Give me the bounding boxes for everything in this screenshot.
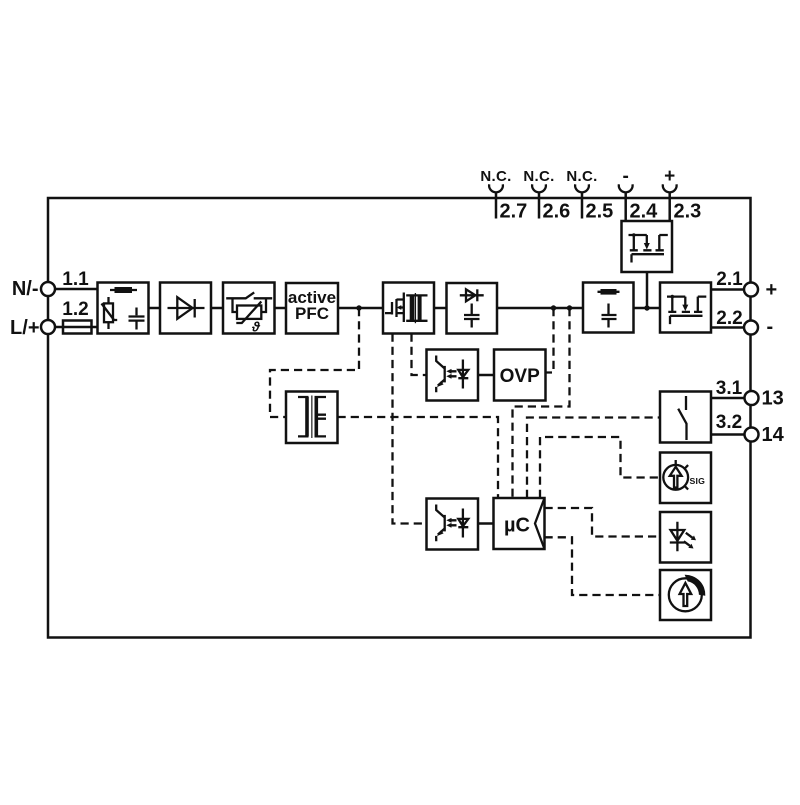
block: secondary rectifier diode + capacitor: [447, 283, 498, 334]
terminal 2.5 N.C.: [566, 168, 597, 219]
svg-text:+: +: [664, 166, 675, 187]
block: signal indicator SIG: [660, 453, 711, 504]
terminal 2.2 circle: [744, 321, 758, 335]
svg-text:SIG: SIG: [690, 476, 706, 486]
wire: bus PFC-DCDC: [338, 307, 383, 310]
wire: bus outfilter-outswitch: [634, 307, 661, 310]
terminal 13 circle: [745, 391, 759, 405]
label + (output plus): [766, 279, 778, 301]
wire: opto2 to uC: [478, 522, 494, 525]
wire: dashed net A (bus tap to aux transformer primary): [270, 308, 359, 417]
label 13: [762, 388, 784, 410]
block: microcontroller uC U5: [494, 498, 545, 549]
block: inrush limiter NTC with bypass switch: [223, 283, 275, 335]
wire: bus DCDC-rectout: [434, 307, 447, 310]
svg-text:2.5: 2.5: [586, 201, 614, 223]
svg-text:3.1: 3.1: [716, 378, 743, 399]
svg-text:14: 14: [762, 424, 785, 446]
label 3.1: [716, 378, 743, 399]
label L/+: [10, 317, 39, 339]
block: OVP overvoltage protection: [494, 350, 546, 401]
svg-text:2.3: 2.3: [674, 201, 702, 223]
wire: dashed net G (uC pin3 to relay): [527, 418, 660, 499]
terminal N/- circle: [41, 282, 55, 296]
label 3.2: [716, 412, 742, 433]
wire: bus rectifier-NTC: [211, 307, 223, 310]
wire: output 2.1: [711, 288, 745, 291]
block: relay signal contact K1: [660, 392, 711, 443]
svg-text:ϑ: ϑ: [251, 320, 261, 335]
block: output LC filter: [583, 283, 634, 333]
svg-text:-: -: [767, 316, 774, 338]
block: input filter (varistor+choke+cap): [98, 283, 149, 334]
terminal 2.6 N.C.: [523, 168, 554, 219]
node: junction U7/bus: [644, 305, 649, 310]
svg-text:OVP: OVP: [500, 366, 540, 387]
svg-text:2.2: 2.2: [716, 308, 742, 329]
block: bridge rectifier: [160, 283, 211, 334]
label 2.7: [500, 201, 528, 223]
label 1.2: [62, 299, 88, 320]
svg-text:N.C.: N.C.: [566, 168, 597, 185]
block: output electronic switch Q2: [660, 283, 711, 333]
svg-text:-: -: [623, 166, 629, 187]
label 2.4: [630, 201, 659, 223]
svg-text:1.1: 1.1: [62, 269, 89, 290]
wire: relay to terminal 13: [711, 397, 745, 400]
svg-text:2.1: 2.1: [716, 269, 743, 290]
terminal 14 circle: [745, 428, 759, 442]
terminal 2.1 circle: [744, 283, 758, 297]
svg-text:L/+: L/+: [10, 317, 39, 339]
svg-text:2.6: 2.6: [543, 201, 571, 223]
svg-text:1.2: 1.2: [62, 299, 88, 320]
label - (output minus): [767, 316, 774, 338]
block: active PFC: [286, 283, 338, 334]
svg-text:N.C.: N.C.: [480, 168, 511, 185]
wire: dashed net F (bus sense tap to uC pin2): [513, 308, 570, 498]
terminal 2.3 plus: [663, 166, 677, 222]
svg-text:N.C.: N.C.: [523, 168, 554, 185]
svg-text:2.4: 2.4: [630, 201, 659, 223]
block: output voltage potentiometer: [660, 570, 711, 620]
node: junction OVP tap: [551, 305, 556, 310]
label 2.2: [716, 308, 742, 329]
wire: dashed net I2 (uC output to potentiometer block): [545, 537, 661, 595]
block: LED indicator: [660, 512, 711, 563]
wire: dashed net I1 (uC output to LED block): [545, 508, 661, 537]
label 2.5: [586, 201, 614, 223]
wire: dashed net H (uC pin4 to SIG block): [540, 437, 660, 498]
svg-text:N/-: N/-: [12, 278, 39, 300]
label 1.1: [62, 269, 89, 290]
fuse F1: [63, 321, 92, 334]
label 2.3: [674, 201, 702, 223]
wire: opto1 to OVP: [478, 374, 494, 377]
block: optocoupler OK2: [427, 499, 479, 550]
label 2.6: [543, 201, 571, 223]
wire: bus rectout-outfilter: [497, 307, 583, 310]
wire: dashed net E (bus tap to OVP): [546, 308, 554, 373]
svg-text:13: 13: [762, 388, 784, 410]
svg-text:+: +: [766, 279, 778, 301]
wire: dashed net C1 (DC/DC gate to opto2): [393, 334, 427, 524]
svg-text:3.2: 3.2: [716, 412, 742, 433]
svg-text:µC: µC: [504, 515, 530, 537]
remote switch block U7 (2.4/2.3): [622, 221, 673, 272]
block: optocoupler OK1: [427, 350, 479, 401]
terminal 2.4 minus: [619, 166, 633, 222]
block: DC/DC switching stage Q1 + transformer T1: [383, 283, 434, 334]
wire: U7 to output bus: [646, 272, 649, 308]
block: aux transformer T2: [286, 392, 338, 444]
wire 1.1 (N input to filter): [53, 288, 98, 291]
svg-text:2.7: 2.7: [500, 201, 528, 223]
wire 1.2 (L input through fuse): [53, 326, 98, 329]
wire: dashed net B (aux transformer secondary to uC pin1): [338, 417, 499, 498]
svg-text:PFC: PFC: [295, 304, 329, 323]
wire: bus NTC-PFC: [275, 307, 287, 310]
label N/-: [12, 278, 39, 300]
terminal L/+ circle: [41, 320, 55, 334]
wire: dashed net C2 (DC/DC to opto1): [412, 334, 427, 376]
wire: bus filter-rectifier: [149, 307, 161, 310]
label 2.1: [716, 269, 743, 290]
node: junction uC sense tap: [567, 305, 572, 310]
wire: output 2.2: [711, 326, 745, 329]
terminal 2.7 N.C.: [480, 168, 511, 219]
node: junction PFC/aux-transformer tap: [356, 305, 361, 310]
wire: relay to terminal 14: [711, 433, 745, 436]
frame: main enclosure border: [48, 198, 751, 638]
label 14: [762, 424, 785, 446]
